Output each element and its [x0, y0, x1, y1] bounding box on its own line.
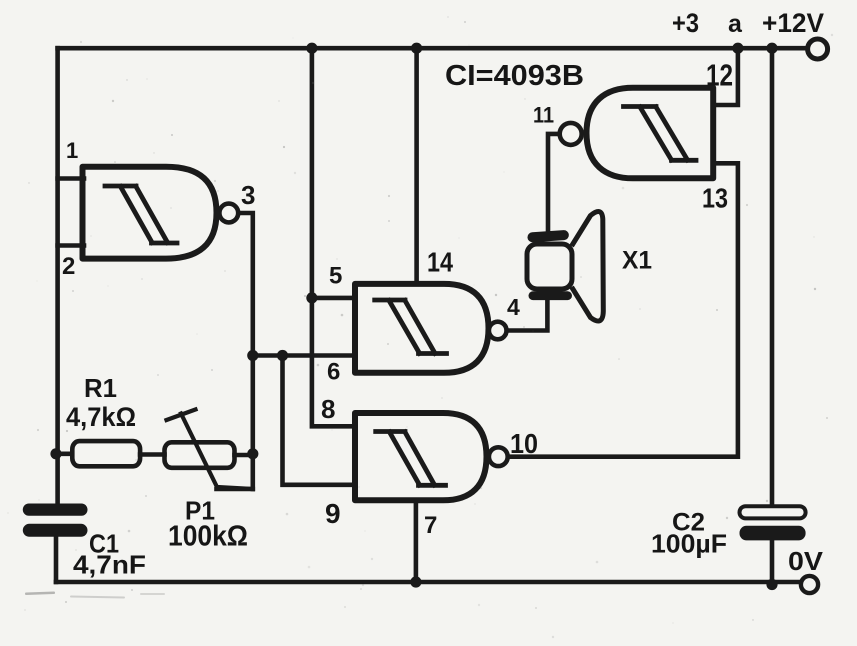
svg-text:X1: X1 — [622, 247, 652, 275]
svg-text:14: 14 — [427, 247, 453, 278]
svg-text:1: 1 — [66, 138, 78, 163]
svg-text:5: 5 — [329, 263, 342, 290]
svg-text:4,7kΩ: 4,7kΩ — [66, 402, 136, 432]
svg-text:9: 9 — [325, 498, 341, 529]
svg-text:12: 12 — [706, 57, 733, 92]
svg-text:CI=4093B: CI=4093B — [445, 60, 584, 92]
svg-text:2: 2 — [62, 253, 75, 280]
svg-text:4: 4 — [507, 294, 520, 320]
svg-text:13: 13 — [702, 183, 728, 214]
svg-text:R1: R1 — [84, 373, 117, 403]
svg-text:3: 3 — [241, 180, 255, 210]
svg-text:100µF: 100µF — [651, 529, 727, 559]
svg-text:+3: +3 — [672, 8, 699, 38]
svg-text:a: a — [728, 10, 743, 38]
svg-text:10: 10 — [510, 428, 538, 459]
svg-text:+12V: +12V — [762, 8, 824, 38]
svg-text:7: 7 — [424, 512, 437, 539]
svg-text:100kΩ: 100kΩ — [168, 521, 248, 553]
svg-text:8: 8 — [321, 394, 335, 424]
svg-text:6: 6 — [327, 359, 340, 386]
svg-text:0V: 0V — [788, 546, 824, 576]
svg-text:11: 11 — [533, 103, 554, 128]
svg-text:4,7nF: 4,7nF — [73, 550, 146, 580]
